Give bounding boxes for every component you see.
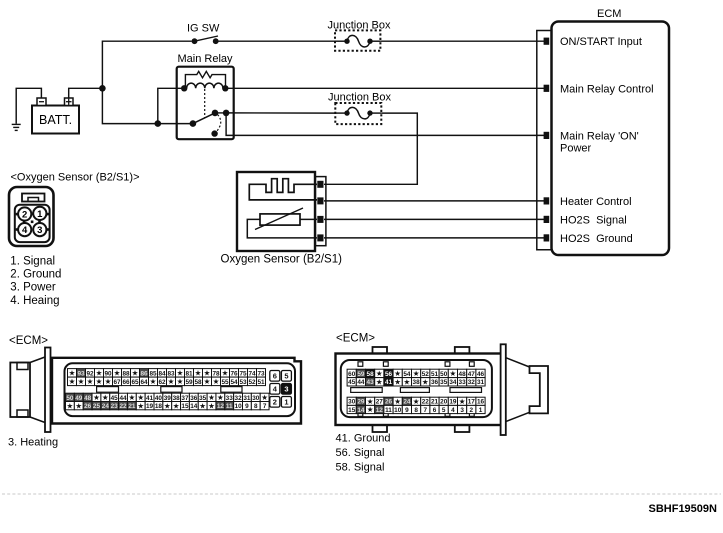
svg-text:2: 2 [273,398,277,407]
svg-text:5: 5 [442,407,446,414]
svg-text:46: 46 [477,371,485,378]
svg-text:27: 27 [376,399,384,406]
svg-text:66: 66 [122,379,130,386]
svg-text:IG SW: IG SW [187,23,220,35]
svg-text:Main Relay: Main Relay [178,53,234,65]
svg-text:BATT.: BATT. [39,113,72,127]
svg-text:88: 88 [122,370,130,377]
svg-text:HO2S Ground: HO2S Ground [560,233,633,245]
svg-text:7: 7 [424,407,428,414]
ECM box U1 [552,22,670,256]
relay switch contacts [190,110,230,137]
oxygen sensor pin 3 [317,216,323,223]
svg-text:48: 48 [459,371,467,378]
svg-text:Main Relay 'ON': Main Relay 'ON' [560,130,639,142]
ECM connector B side profile [501,344,548,435]
ECM connector A pin row 27-7 [66,401,270,410]
svg-text:59: 59 [357,371,365,378]
svg-text:★: ★ [394,397,401,406]
scan artifact rule [2,493,721,495]
svg-text:<ECM>: <ECM> [336,333,375,345]
svg-text:Heater Control: Heater Control [560,196,632,208]
ECM connector A pin row 50-28 [66,393,270,402]
svg-text:74: 74 [248,370,256,377]
svg-text:10: 10 [394,407,402,414]
wire: sensor element to pin 4 [247,219,317,238]
svg-text:★: ★ [87,377,94,386]
svg-text:11: 11 [226,403,233,410]
svg-text:★: ★ [75,401,82,410]
svg-text:★: ★ [69,377,76,386]
ECM connector B pin row 30-16 [347,397,485,406]
svg-text:64: 64 [140,379,148,386]
wire: node A down and right to relay switch pivot [102,88,192,123]
svg-text:30: 30 [348,399,356,406]
wire: IG SW to junction box 1 [216,40,335,42]
svg-text:Junction Box: Junction Box [328,20,391,32]
wire: sensor element to pin 3 [300,218,317,220]
svg-text:26: 26 [84,403,92,410]
svg-text:44: 44 [357,379,365,386]
svg-text:★: ★ [102,393,109,402]
connector cavity 4 [18,223,31,236]
svg-text:58: 58 [194,379,202,386]
svg-text:54: 54 [230,379,238,386]
svg-text:4. Heaing: 4. Heaing [10,295,59,307]
svg-text:19: 19 [449,399,457,406]
svg-text:86: 86 [140,370,148,377]
svg-text:★: ★ [128,393,135,402]
svg-text:56: 56 [385,371,393,378]
svg-text:55: 55 [221,379,229,386]
svg-text:★: ★ [173,401,180,410]
svg-text:★: ★ [413,369,420,378]
svg-text:25: 25 [93,403,101,410]
ECM connector B keying slots [351,388,383,393]
svg-text:30: 30 [252,395,260,402]
svg-text:1. Signal: 1. Signal [10,255,55,267]
ECM connector A pin row 94-73 [68,368,266,377]
svg-text:22: 22 [119,403,127,410]
oxygen sensor pin 4 [317,234,323,241]
svg-text:14: 14 [190,403,198,410]
wire: node B up to relay coil [158,88,184,123]
ECM connector A pin row 72-51 [68,377,266,386]
svg-text:29: 29 [357,399,365,406]
svg-text:35: 35 [440,379,448,386]
wire: junction box 2 to oxygen sensor heater pin 1 [324,113,417,184]
svg-text:★: ★ [195,368,202,377]
svg-text:36: 36 [431,379,439,386]
svg-text:8: 8 [414,407,418,414]
svg-text:Junction Box: Junction Box [328,92,391,104]
svg-text:4: 4 [22,225,28,236]
svg-text:ECM: ECM [597,8,621,20]
svg-text:65: 65 [131,379,139,386]
svg-text:★: ★ [150,377,157,386]
svg-text:31: 31 [477,379,485,386]
ECM connector B pin row 45-31 [347,377,485,386]
svg-text:★: ★ [394,377,401,386]
svg-text:73: 73 [257,370,265,377]
svg-text:7: 7 [263,403,267,410]
svg-text:81: 81 [185,370,193,377]
svg-text:62: 62 [158,379,166,386]
svg-text:★: ★ [78,377,85,386]
svg-text:★: ★ [137,401,144,410]
ECM pin (Main Relay ON Power) [544,132,550,139]
wire: relay contact down to ECM Main Relay ON Power pin [226,113,544,135]
switch IG SW [187,23,220,45]
svg-text:51: 51 [257,379,265,386]
svg-text:47: 47 [468,371,476,378]
relay Main Relay box [177,67,234,140]
relay coil L1 [181,83,229,91]
ECM pin (HO2S Signal) [544,216,550,223]
svg-text:6: 6 [433,407,437,414]
svg-text:★: ★ [105,377,112,386]
junction box 2 (fuse) [328,92,391,125]
svg-text:5: 5 [284,372,288,381]
svg-text:58. Signal: 58. Signal [336,462,385,474]
svg-text:41: 41 [146,395,154,402]
svg-text:HO2S Signal: HO2S Signal [560,214,627,226]
svg-text:48: 48 [84,395,92,402]
svg-text:★: ★ [114,368,121,377]
node B junction dot [155,120,162,127]
svg-text:16: 16 [477,399,485,406]
wire: node A up to IG SW [102,41,191,88]
svg-text:6: 6 [273,372,277,381]
oxygen sensor pin 1 [317,181,323,188]
svg-text:34: 34 [449,379,457,386]
svg-text:★: ★ [376,377,383,386]
ECM connector A (94-pin) housing [10,348,301,433]
svg-text:3: 3 [37,225,42,236]
svg-text:52: 52 [248,379,256,386]
svg-text:8: 8 [254,403,258,410]
relay armature link (dotted) [204,89,206,118]
svg-text:18: 18 [155,403,163,410]
svg-text:★: ★ [96,377,103,386]
svg-text:3. Power: 3. Power [10,282,56,294]
svg-text:★: ★ [449,369,456,378]
wire: sensor pin 3 to ECM HO2S Signal [324,218,544,220]
oxygen sensor pin 2 [317,197,323,204]
svg-text:51: 51 [431,371,439,378]
legend: sensor pin functions [10,255,61,307]
svg-text:<Oxygen Sensor (B2/S1)>: <Oxygen Sensor (B2/S1)> [11,172,140,184]
svg-text:★: ★ [261,393,268,402]
svg-text:★: ★ [213,377,220,386]
svg-text:58: 58 [367,371,375,378]
ECM connector A pin block 1-6 [270,371,292,408]
svg-text:14: 14 [357,407,365,414]
svg-text:12: 12 [217,403,225,410]
svg-text:★: ★ [208,401,215,410]
svg-text:20: 20 [440,399,448,406]
ECM pin (ON/START Input) [544,38,550,45]
wire: sensor pin 4 to ECM HO2S Ground [324,237,544,239]
svg-text:33: 33 [459,379,467,386]
ECM connector B (60-pin) housing [336,347,504,432]
svg-text:53: 53 [239,379,247,386]
svg-text:3. Heating: 3. Heating [8,437,58,449]
svg-text:23: 23 [111,403,119,410]
svg-text:★: ★ [93,393,100,402]
svg-text:36: 36 [190,395,198,402]
svg-text:<ECM>: <ECM> [9,335,48,347]
svg-text:41. Ground: 41. Ground [336,433,391,445]
ECM connector B pin row 60-46 [347,369,485,378]
ECM connector strip [537,31,552,250]
svg-text:★: ★ [413,397,420,406]
svg-text:76: 76 [230,370,238,377]
wire: battery negative terminal to ground [16,88,41,124]
svg-text:37: 37 [181,395,189,402]
svg-text:45: 45 [111,395,119,402]
node A junction dot [99,85,106,92]
svg-text:★: ★ [422,377,429,386]
svg-text:24: 24 [102,403,110,410]
ECM pin (Heater Control) [544,197,550,204]
svg-text:32: 32 [468,379,476,386]
sensor element (zirconia cell) [255,208,303,230]
svg-text:1: 1 [479,407,483,414]
wire: relay coil to ECM Main Relay Control pin [225,87,544,89]
svg-text:10: 10 [235,403,243,410]
relay resistor (parallel with coil) [185,71,225,88]
wire: relay contact to junction box 2 [226,112,335,114]
svg-text:★: ★ [199,401,206,410]
connector cavity 3 [33,223,46,236]
svg-text:75: 75 [239,370,247,377]
svg-text:84: 84 [158,370,166,377]
svg-text:Main Relay Control: Main Relay Control [560,83,654,95]
wire: battery positive to node A [69,88,103,98]
svg-text:★: ★ [217,393,224,402]
svg-text:43: 43 [367,379,375,386]
svg-text:★: ★ [459,397,466,406]
svg-text:1: 1 [284,398,288,407]
svg-text:Oxygen Sensor (B2/S1): Oxygen Sensor (B2/S1) [221,254,343,266]
svg-text:21: 21 [128,403,136,410]
svg-text:45: 45 [348,379,356,386]
svg-text:50: 50 [440,371,448,378]
oxygen sensor connector strip [315,177,326,246]
svg-text:15: 15 [181,403,189,410]
svg-text:31: 31 [243,395,251,402]
svg-text:15: 15 [348,407,356,414]
svg-text:32: 32 [235,395,243,402]
connector cavity 1 [33,207,46,220]
svg-text:Power: Power [560,143,592,155]
svg-text:9: 9 [405,407,409,414]
svg-text:19: 19 [146,403,154,410]
connector cavity 2 [18,207,31,220]
oxygen sensor B2/S1 box [237,172,315,251]
svg-text:56. Signal: 56. Signal [336,447,385,459]
svg-text:17: 17 [468,399,476,406]
svg-text:3: 3 [460,407,464,414]
legend: ECM connector B pin functions [336,433,391,474]
svg-text:26: 26 [385,399,393,406]
svg-text:67: 67 [113,379,121,386]
svg-text:24: 24 [403,399,411,406]
svg-text:33: 33 [226,395,234,402]
svg-text:9: 9 [245,403,249,410]
svg-text:2. Ground: 2. Ground [10,269,61,281]
ECM connector A keying tabs [97,387,119,393]
oxygen sensor connector (front view) [9,187,54,246]
svg-text:21: 21 [431,399,439,406]
battery BATT. [32,98,79,134]
svg-text:2: 2 [470,407,474,414]
svg-text:SBHF19509N: SBHF19509N [649,503,718,515]
heater element (meander) inside sensor [249,179,317,200]
svg-text:★: ★ [204,377,211,386]
ECM connector B pin row 15-1 [347,405,485,414]
ECM pin (HO2S Ground) [544,234,550,241]
svg-text:22: 22 [422,399,430,406]
ground [12,124,21,130]
svg-text:★: ★ [168,377,175,386]
junction box 1 (fuse) [328,20,391,51]
svg-text:44: 44 [119,395,127,402]
svg-text:4: 4 [451,407,455,414]
svg-text:38: 38 [413,379,421,386]
svg-text:59: 59 [185,379,193,386]
svg-text:ON/START Input: ON/START Input [560,36,642,48]
svg-text:★: ★ [403,377,410,386]
svg-text:★: ★ [367,405,374,414]
svg-text:60: 60 [348,371,356,378]
svg-text:3: 3 [284,385,288,394]
svg-text:★: ★ [132,368,139,377]
svg-text:41: 41 [385,379,393,386]
svg-text:1: 1 [37,209,43,220]
svg-text:40: 40 [155,395,163,402]
svg-text:2: 2 [22,209,27,220]
svg-text:12: 12 [376,407,384,414]
wire: sensor pin 2 to ECM Heater Control [324,200,544,202]
svg-text:11: 11 [385,407,392,414]
svg-text:★: ★ [222,368,229,377]
ECM pin (Main Relay Control) [544,85,550,92]
wire: junction box 1 to ECM ON/START pin [380,40,544,42]
svg-text:★: ★ [177,377,184,386]
svg-text:★: ★ [67,401,74,410]
svg-text:★: ★ [164,401,171,410]
